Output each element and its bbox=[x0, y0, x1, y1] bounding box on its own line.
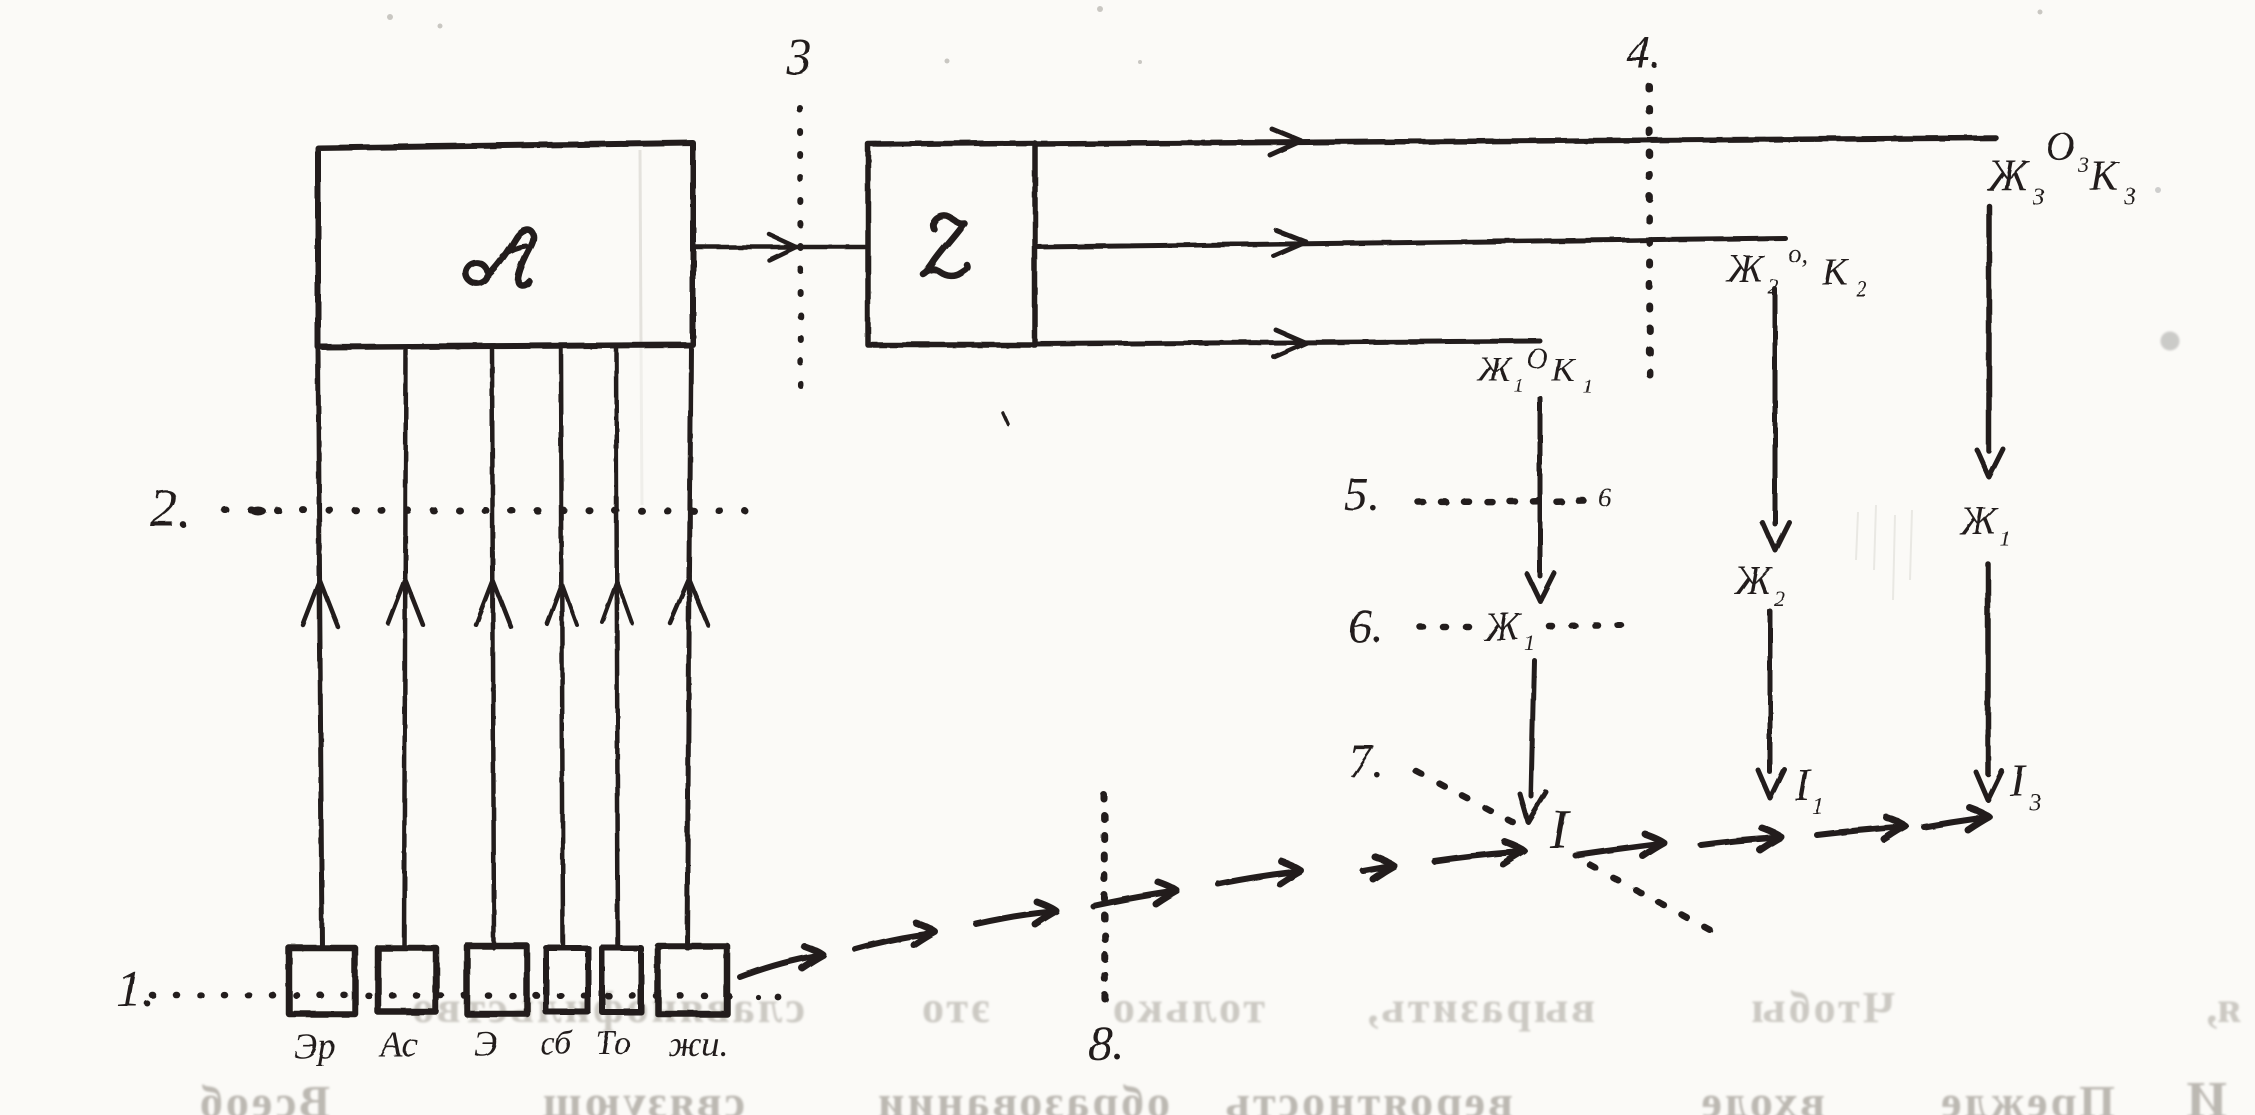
svg-text:1: 1 bbox=[1514, 375, 1524, 397]
svg-text:5.: 5. bbox=[1344, 468, 1380, 521]
svg-text:это: это bbox=[919, 983, 990, 1032]
svg-text:4.: 4. bbox=[1626, 26, 1662, 79]
svg-text:Ж: Ж bbox=[1725, 246, 1766, 291]
svg-text:я,: я, bbox=[2206, 983, 2241, 1032]
svg-text:О: О bbox=[1526, 342, 1548, 375]
svg-text:Ж: Ж bbox=[1477, 349, 1513, 389]
svg-text:1: 1 bbox=[1812, 794, 1824, 820]
svg-text:Чтобы: Чтобы bbox=[1748, 983, 1895, 1032]
svg-text:1: 1 bbox=[2000, 526, 2011, 551]
svg-text:То: То bbox=[596, 1025, 631, 1062]
svg-text:2.: 2. bbox=[150, 478, 191, 538]
svg-text:7.: 7. bbox=[1348, 735, 1384, 788]
svg-text:входе: входе bbox=[1699, 1076, 1825, 1115]
svg-text:жи.: жи. bbox=[668, 1024, 729, 1064]
svg-text:Ж: Ж bbox=[1986, 151, 2030, 200]
svg-text:Прежде: Прежде bbox=[1938, 1076, 2115, 1115]
svg-text:2: 2 bbox=[1768, 274, 1779, 299]
svg-text:1: 1 bbox=[1582, 375, 1592, 397]
svg-text:Ж: Ж bbox=[1482, 604, 1523, 649]
svg-text:только: только bbox=[1110, 983, 1265, 1032]
svg-text:3: 3 bbox=[2032, 185, 2045, 211]
svg-text:8.: 8. bbox=[1088, 1015, 1126, 1071]
svg-text:1.: 1. bbox=[116, 961, 155, 1018]
svg-text:1: 1 bbox=[1524, 630, 1535, 655]
svg-text:образовании: образовании bbox=[875, 1076, 1170, 1115]
svg-text:К: К bbox=[1821, 251, 1849, 293]
svg-text:2: 2 bbox=[1856, 276, 1867, 301]
svg-text:И: И bbox=[2187, 1072, 2227, 1115]
svg-text:К: К bbox=[1551, 352, 1577, 389]
svg-text:Ж: Ж bbox=[1733, 558, 1774, 603]
svg-text:выразить,: выразить, bbox=[1365, 983, 1596, 1032]
svg-text:О: О bbox=[2046, 124, 2075, 169]
svg-text:6: 6 bbox=[1598, 483, 1611, 512]
svg-text:Эр: Эр bbox=[294, 1026, 336, 1066]
svg-text:I: I bbox=[1549, 799, 1571, 861]
svg-text:о,: о, bbox=[1788, 239, 1808, 268]
svg-text:сб: сб bbox=[540, 1025, 574, 1062]
svg-text:3: 3 bbox=[785, 29, 812, 86]
svg-text:К: К bbox=[2089, 154, 2120, 200]
svg-text:вероятность: вероятность bbox=[1223, 1076, 1513, 1115]
svg-text:связующ: связующ bbox=[540, 1076, 745, 1115]
svg-text:6.: 6. bbox=[1348, 600, 1384, 653]
svg-text:Всеоб: Всеоб bbox=[197, 1076, 330, 1115]
svg-text:2: 2 bbox=[1774, 586, 1785, 611]
svg-text:Ас: Ас bbox=[378, 1024, 417, 1064]
svg-text:I: I bbox=[1794, 759, 1813, 810]
svg-text:3: 3 bbox=[2028, 790, 2041, 816]
svg-text:3: 3 bbox=[2077, 152, 2089, 177]
svg-text:I: I bbox=[2009, 755, 2028, 806]
svg-text:Э: Э bbox=[474, 1024, 498, 1064]
svg-text:3: 3 bbox=[2123, 184, 2136, 210]
svg-text:Ж: Ж bbox=[1958, 498, 1999, 543]
